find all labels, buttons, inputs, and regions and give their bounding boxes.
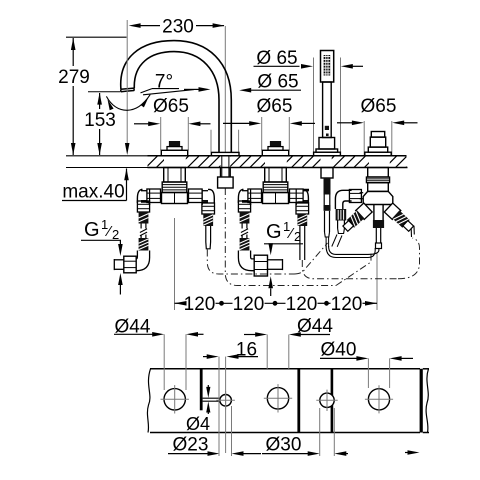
svg-text:max.40: max.40 — [62, 182, 124, 203]
svg-text:120: 120 — [233, 294, 265, 315]
svg-text:230: 230 — [162, 17, 194, 38]
svg-text:G: G — [266, 221, 282, 243]
svg-text:Ø4: Ø4 — [186, 414, 210, 434]
svg-text:Ø 65: Ø 65 — [257, 72, 298, 93]
svg-text:16: 16 — [236, 340, 257, 361]
svg-text:153: 153 — [84, 110, 116, 131]
svg-text:2: 2 — [294, 229, 301, 244]
svg-text:120: 120 — [286, 294, 318, 315]
svg-text:Ø65: Ø65 — [257, 96, 293, 117]
svg-text:Ø23: Ø23 — [173, 434, 209, 455]
svg-text:Ø30: Ø30 — [266, 434, 302, 455]
svg-text:279: 279 — [58, 67, 90, 88]
svg-text:Ø65: Ø65 — [153, 96, 189, 117]
svg-text:G: G — [84, 219, 100, 241]
svg-text:Ø40: Ø40 — [321, 340, 357, 361]
svg-text:Ø65: Ø65 — [361, 96, 397, 117]
svg-text:7°: 7° — [155, 71, 173, 92]
svg-text:120: 120 — [331, 294, 363, 315]
svg-text:120: 120 — [184, 294, 216, 315]
svg-text:Ø 65: Ø 65 — [256, 48, 297, 69]
